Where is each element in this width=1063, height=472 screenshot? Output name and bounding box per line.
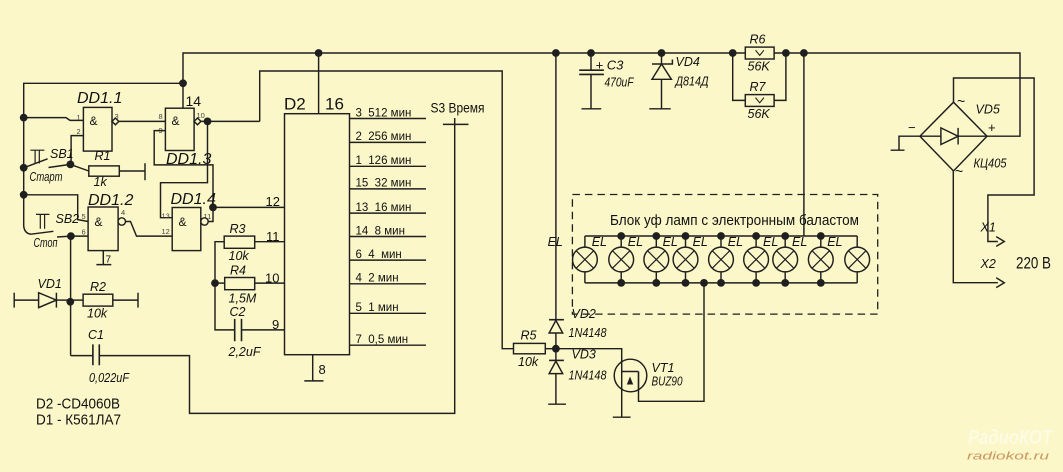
node lamp bottom rail 5 — [717, 279, 725, 287]
svg-text:14 8 мин: 14 8 мин — [356, 225, 405, 237]
inverter circle DD1.2 output — [118, 218, 125, 225]
svg-text:0,022uF: 0,022uF — [89, 371, 130, 385]
svg-text:8: 8 — [319, 362, 326, 377]
svg-text:DD1.2: DD1.2 — [88, 192, 133, 209]
wire to C1 left plate — [71, 355, 93, 357]
wire D2 output row 2 — [350, 141, 427, 143]
svg-text:EL: EL — [693, 235, 708, 249]
node VD1 R2 junction — [66, 298, 74, 306]
node rail pin16 — [315, 49, 323, 57]
wire D2 output row 5 — [350, 212, 427, 214]
svg-text:R3: R3 — [230, 222, 246, 236]
svg-text:7: 7 — [106, 255, 112, 266]
svg-text:EL: EL — [827, 235, 842, 249]
wire SB1 node to R1 — [70, 164, 88, 171]
svg-text:X2: X2 — [980, 257, 996, 271]
svg-text:EL: EL — [548, 235, 563, 249]
resistor R5 body — [514, 343, 546, 353]
diode VD2 triangle — [549, 320, 563, 333]
wire bridge AC top to X1 — [954, 78, 1035, 242]
node lamp bottom rail 2 — [617, 279, 625, 287]
wire DD1.1 pin2 to SB1 node — [71, 136, 83, 165]
svg-text:6 4 мин: 6 4 мин — [356, 249, 402, 261]
svg-text:EL: EL — [628, 235, 643, 249]
lamp EL4 — [673, 236, 698, 283]
svg-text:Д814Д: Д814Д — [674, 75, 709, 89]
wire R3 to D2 pin11 — [255, 241, 285, 243]
capacitor C1 plates — [93, 344, 99, 365]
bridge VD5 diamond — [920, 102, 987, 171]
svg-text:5 1 мин: 5 1 мин — [356, 302, 399, 314]
lamp EL5 — [709, 236, 734, 283]
wire D2 output row 7 — [350, 259, 427, 261]
svg-text:&: & — [172, 114, 180, 128]
wire bridge AC bottom to X2 — [953, 171, 998, 283]
wire lamp feed vertical — [803, 53, 805, 236]
wire D2 output row 9 — [350, 312, 427, 314]
wire VD4 top lead — [661, 53, 663, 64]
IC D2 pin8 lead — [304, 355, 323, 381]
svg-text:R7: R7 — [750, 80, 767, 94]
diode VD1 cathode bar — [55, 293, 57, 308]
resistor R2 body — [83, 294, 113, 306]
zener VD4 bottom lead — [649, 79, 670, 109]
svg-text:1: 1 — [77, 113, 81, 122]
wire SB2 rail to DD1.2 pin5 — [24, 195, 88, 222]
svg-text:2 256 мин: 2 256 мин — [356, 131, 412, 143]
svg-text:4 2 мин: 4 2 мин — [356, 273, 399, 285]
resistor R7 v-mark — [756, 98, 764, 103]
wire C2 to D2 pin9 — [242, 329, 285, 331]
svg-text:R1: R1 — [95, 149, 111, 163]
wire DD1.1 out to DD1.3 in — [119, 120, 166, 122]
svg-text:470uF: 470uF — [605, 75, 635, 90]
node left rail SB1 — [20, 164, 28, 172]
node rail C3 — [587, 49, 595, 57]
wire C1 to S3 wiper — [99, 118, 454, 413]
svg-text:Старт: Старт — [30, 170, 63, 184]
transistor VT1 circle — [614, 359, 647, 392]
svg-text:1N4148: 1N4148 — [569, 326, 607, 340]
svg-text:РадиоКОТ: РадиоКОТ — [968, 427, 1053, 449]
svg-text:13: 13 — [162, 212, 170, 221]
svg-text:56K: 56K — [748, 60, 771, 74]
svg-text:VD5: VD5 — [976, 103, 1000, 117]
svg-text:56K: 56K — [748, 107, 771, 121]
svg-text:DD1.1: DD1.1 — [77, 90, 122, 107]
wire D2 output row 4 — [350, 188, 427, 190]
svg-text:EL: EL — [663, 235, 678, 249]
svg-text:+: + — [988, 120, 996, 135]
wire R4 to D2 pin10 — [255, 282, 285, 284]
node pin14 junction — [179, 79, 187, 87]
wire lamp top rail — [585, 235, 857, 237]
lamp EL1 — [573, 236, 598, 283]
logic gate DD1.3 body — [165, 108, 194, 150]
node left rail SB2 — [20, 191, 28, 199]
svg-text:10k: 10k — [229, 249, 250, 263]
wire lamp bottom rail — [585, 282, 857, 284]
svg-text:EL: EL — [728, 235, 743, 249]
svg-text:&: & — [95, 215, 103, 229]
node lamp top rail 7 — [781, 232, 789, 240]
svg-text:VD3: VD3 — [572, 348, 596, 362]
logic gate DD1.4 body — [172, 208, 201, 251]
svg-text:VT1: VT1 — [652, 361, 675, 375]
node R4 left — [211, 279, 219, 287]
switch SB2 plunger — [36, 214, 49, 228]
resistor R7 body — [745, 95, 774, 107]
svg-text:15 32 мин: 15 32 мин — [356, 178, 412, 190]
bridge VD5 diode triangle — [941, 128, 958, 145]
svg-text:VD4: VD4 — [676, 55, 700, 69]
node rail R6 left — [729, 49, 737, 57]
wire DD1.3 out to DD1.4 pin13 — [161, 121, 208, 217]
node lamp bottom rail drain tap — [700, 279, 708, 287]
node gate — [552, 345, 560, 353]
node lamp top rail 3 — [652, 232, 660, 240]
svg-text:2,2uF: 2,2uF — [228, 345, 262, 359]
svg-text:Блок уф ламп с электронным бал: Блок уф ламп с электронным баластом — [610, 213, 859, 229]
terminal bar R1 right — [144, 163, 146, 180]
wire bridge minus terminal — [891, 136, 920, 150]
svg-text:D2: D2 — [284, 95, 306, 114]
logic gate DD1.1 body — [83, 107, 112, 151]
svg-text:R5: R5 — [521, 329, 537, 343]
diode VD1 triangle — [39, 293, 57, 308]
diode VD2 cathode bar — [549, 319, 564, 321]
svg-text:C1: C1 — [88, 328, 104, 342]
svg-text:13 16 мин: 13 16 мин — [356, 202, 412, 214]
terminal bar R2 right — [137, 293, 139, 308]
gate DD1.2 pin7 lead — [96, 251, 111, 265]
svg-text:1N4148: 1N4148 — [569, 369, 607, 383]
inverter diamond DD1.3 output — [194, 118, 201, 125]
svg-text:3 512 мин: 3 512 мин — [356, 107, 412, 119]
lamp EL7 — [773, 236, 798, 283]
wire DD1.1 pin1 from left rail — [24, 118, 84, 121]
svg-text:1 126 мин: 1 126 мин — [356, 155, 412, 167]
svg-text:2: 2 — [77, 127, 81, 136]
svg-text:8: 8 — [159, 112, 163, 121]
svg-text:Стоп: Стоп — [34, 236, 58, 250]
resistor R6 body — [745, 47, 774, 59]
svg-text:D2 -CD4060B: D2 -CD4060B — [36, 396, 120, 413]
svg-text:10k: 10k — [87, 307, 108, 321]
node SB2 contact — [67, 232, 75, 240]
svg-text:S3 Время: S3 Время — [431, 100, 485, 116]
svg-text:14: 14 — [186, 93, 202, 109]
lamp EL6 — [744, 236, 769, 283]
wire R1 right lead — [119, 170, 145, 172]
svg-text:D1 - К561ЛА7: D1 - К561ЛА7 — [36, 412, 121, 429]
transistor VT1 arrow — [627, 377, 633, 385]
resistor R4 body — [225, 278, 255, 290]
wire gate node to VT1 — [556, 349, 631, 418]
svg-text:&: & — [179, 215, 187, 229]
node rail R6 right — [782, 49, 790, 57]
svg-text:12: 12 — [266, 194, 280, 209]
wire D2 output row 6 — [350, 236, 427, 238]
lamp EL3 — [644, 236, 669, 283]
node lamp bottom rail 8 — [817, 279, 825, 287]
diode VD1 left terminal bar — [13, 293, 15, 308]
terminal X1 arrow — [996, 237, 1004, 247]
svg-text:R6: R6 — [750, 33, 766, 47]
node rail lamp feed — [800, 49, 808, 57]
wire D2 output row 1 — [350, 118, 427, 120]
transistor VT1 internal bars — [622, 372, 639, 389]
svg-text:16: 16 — [325, 95, 344, 114]
node lamp top rail 6 — [752, 232, 760, 240]
svg-text:radiokot.ru: radiokot.ru — [967, 451, 1049, 463]
wire D2 output row 10 — [350, 344, 427, 346]
svg-text:&: & — [90, 114, 98, 128]
svg-text:SB2: SB2 — [56, 212, 80, 226]
wire top supply rail from pin14 node to bridge plus — [183, 53, 1020, 136]
svg-text:9: 9 — [272, 317, 279, 332]
wire SB2 node to DD1.2 pin6 — [71, 235, 88, 237]
wire D2 output row 3 — [350, 165, 427, 167]
lamp EL8 — [808, 236, 833, 283]
svg-text:11: 11 — [266, 229, 280, 244]
svg-text:5: 5 — [82, 212, 86, 221]
resistor R3 body — [224, 236, 255, 248]
resistor R6 v-mark — [756, 50, 764, 55]
lamp EL2 — [609, 236, 634, 283]
svg-text:R4: R4 — [230, 264, 246, 278]
node rail VD4 — [658, 49, 666, 57]
node lamp bottom rail 4 — [682, 279, 690, 287]
capacitor C3 plates — [579, 70, 604, 74]
svg-text:220 В: 220 В — [1016, 254, 1051, 273]
wire VT1 drain to lamp rail — [639, 283, 705, 401]
resistor R7 right jog — [774, 53, 786, 100]
svg-text:BUZ90: BUZ90 — [652, 375, 683, 389]
svg-text:SB1: SB1 — [50, 147, 74, 161]
svg-text:1,5M: 1,5M — [229, 292, 257, 306]
wire DD1.2 out to DD1.4 pin12 — [126, 222, 173, 237]
wire DD1.4 out up to node — [208, 207, 213, 221]
node lamp bottom rail 3 — [652, 279, 660, 287]
svg-text:VD1: VD1 — [38, 277, 62, 291]
wire VD1 left lead — [14, 299, 38, 301]
diode VD3 triangle — [549, 361, 563, 374]
wire R2 right lead — [113, 299, 138, 301]
switch SB1 fixed contact — [49, 164, 71, 167]
inverter circle DD1.4 output — [201, 218, 208, 225]
node DD1.4 output — [209, 204, 217, 212]
svg-text:−: − — [908, 120, 916, 135]
svg-text:6: 6 — [82, 228, 86, 237]
zener VD4 triangle — [652, 64, 671, 79]
wire R5 to gate node — [545, 348, 556, 350]
wire node to R4 — [215, 282, 225, 284]
node DD1.3 output — [204, 118, 212, 126]
node lamp top rail 8 — [817, 232, 825, 240]
svg-text:10: 10 — [265, 271, 279, 286]
switch SB2 moving arm — [24, 195, 54, 234]
svg-text:4: 4 — [121, 208, 125, 217]
wire node to D2 pin12 — [213, 206, 285, 208]
resistor R7 left jog — [733, 53, 746, 100]
wire left rail with top link to pin14 node — [24, 83, 183, 195]
node SB1 contact — [67, 161, 75, 169]
wire VD2 branch vertical — [555, 53, 557, 320]
wire SB2 node down to C1 corner — [70, 236, 72, 356]
terminal X2 arrow — [996, 278, 1004, 288]
node left rail to DD1.1 pin1 — [20, 114, 28, 122]
wire D2 output row 8 — [350, 283, 427, 285]
svg-text:~: ~ — [955, 163, 963, 179]
svg-text:12: 12 — [162, 227, 170, 236]
inverter diamond DD1.1 output — [112, 118, 119, 125]
zener VD4 cathode bar with tail — [652, 60, 672, 65]
diode VD3 bottom lead — [548, 349, 566, 405]
svg-text:1k: 1k — [94, 175, 108, 189]
switch SB2 fixed contact — [57, 235, 71, 238]
node rail VD2 branch — [552, 49, 560, 57]
svg-text:7 0,5 мин: 7 0,5 мин — [356, 334, 409, 346]
node lamp top rail 5 — [717, 232, 725, 240]
svg-text:DD1.4: DD1.4 — [171, 191, 216, 208]
bridge VD5 diode cathode bar — [957, 128, 959, 145]
resistor R1 body — [89, 166, 120, 176]
switch SB1 moving arm — [24, 159, 48, 168]
logic gate DD1.2 body — [88, 207, 118, 251]
svg-text:R2: R2 — [90, 280, 106, 294]
svg-text:КЦ405: КЦ405 — [974, 157, 1007, 171]
svg-text:10k: 10k — [518, 355, 539, 369]
wire VD1 to node — [56, 299, 70, 301]
wire C3 top lead — [590, 53, 592, 70]
capacitor C2 plates — [235, 319, 242, 341]
capacitor C3 bottom lead — [582, 74, 602, 108]
wire DD1.3 output to R5 feed — [201, 71, 514, 349]
diode VD3 cathode bar — [549, 359, 564, 361]
svg-text:EL: EL — [763, 235, 778, 249]
IC D2 body — [285, 114, 350, 355]
node lamp bottom rail 6 — [752, 279, 760, 287]
svg-text:+ C3: + C3 — [596, 58, 625, 73]
svg-text:EL: EL — [792, 235, 807, 249]
svg-text:C2: C2 — [230, 305, 246, 319]
node lamp top rail 4 — [682, 232, 690, 240]
wire VD2 to gate node — [555, 333, 557, 349]
svg-text:X1: X1 — [980, 221, 996, 235]
lamp block dashed box — [572, 195, 877, 315]
wire D2 pin16 to rail — [318, 53, 320, 114]
wire node to R2 — [70, 299, 83, 301]
node lamp bottom rail 7 — [781, 279, 789, 287]
bridge VD5 horizontal diagonal — [920, 135, 987, 137]
wire R3-R4-C2 left vertical — [215, 242, 235, 330]
svg-text:~: ~ — [957, 93, 965, 109]
node lamp top rail 2 — [617, 232, 625, 240]
wire DD1.3 pin9 to DD1.4 out — [154, 131, 213, 208]
switch SB1 plunger — [30, 150, 44, 163]
svg-text:EL: EL — [592, 235, 607, 249]
lamp EL9 — [845, 236, 870, 283]
switch S3 wiper tick — [443, 123, 469, 125]
